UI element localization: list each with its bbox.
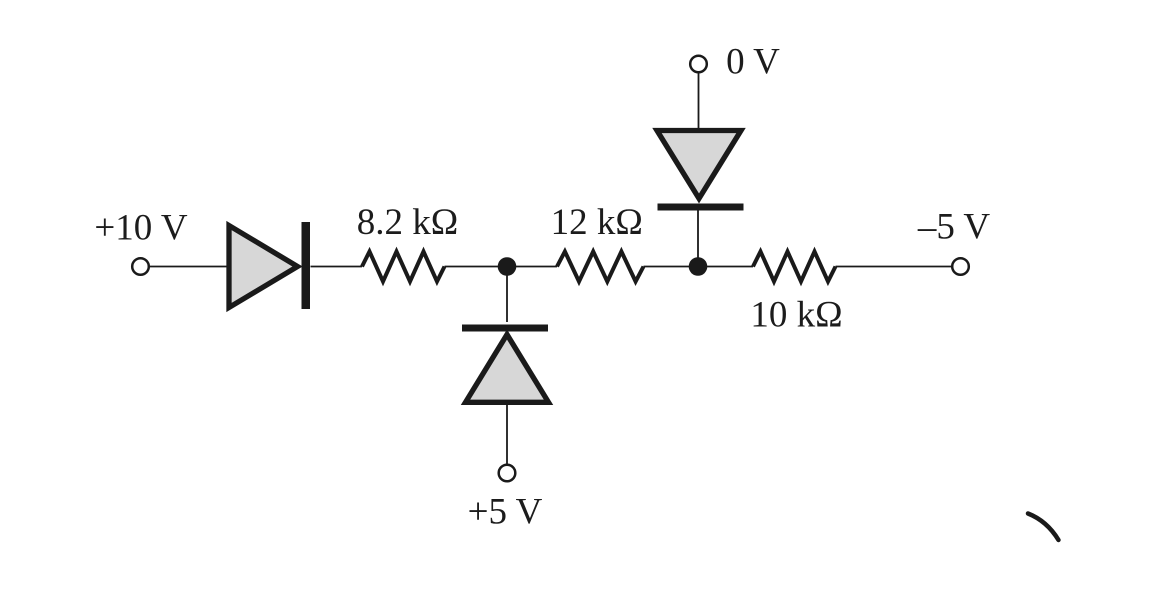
diode D1 cathode bar — [302, 222, 311, 309]
svg-text:+5 V: +5 V — [468, 492, 543, 533]
node A junction dot — [498, 257, 517, 276]
label 10 kOhm — [750, 295, 842, 336]
terminal +10V (open circle) — [132, 258, 149, 275]
wire D2 to terminal +5V — [506, 404, 508, 465]
node B junction dot — [689, 257, 708, 276]
svg-text:10 kΩ: 10 kΩ — [750, 295, 842, 336]
resistor R2 zigzag 12k — [557, 252, 644, 282]
label +5 V — [468, 492, 543, 533]
diode D3 triangle (pointing down) — [657, 131, 741, 199]
terminal -5V (open circle) — [952, 258, 969, 275]
svg-text:8.2 kΩ: 8.2 kΩ — [357, 202, 459, 243]
label 0 V — [726, 42, 780, 83]
diode D1 triangle — [229, 226, 298, 308]
terminal +5V (open circle) — [499, 465, 516, 482]
wire terminal to diode D1 — [149, 266, 230, 268]
svg-text:12 kΩ: 12 kΩ — [551, 202, 643, 243]
terminal 0V (open circle) — [690, 56, 707, 73]
wire D3 to terminal 0V — [698, 72, 700, 129]
wire R1 to node A — [445, 266, 508, 268]
diode D2 cathode bar — [462, 325, 548, 332]
wire R2 to node B — [644, 266, 754, 268]
svg-text:–5 V: –5 V — [917, 207, 991, 248]
diode D3 cathode bar — [658, 204, 744, 211]
label -5 V — [917, 207, 991, 248]
label 8.2 kOhm — [357, 202, 459, 243]
wire D1 to resistor R1 — [311, 266, 363, 268]
svg-text:+10 V: +10 V — [94, 208, 187, 249]
wire node A down to diode D2 — [506, 267, 508, 323]
stray curved mark bottom right — [1028, 514, 1059, 541]
label +10 V — [94, 208, 187, 249]
resistor R1 zigzag 8.2k — [362, 252, 445, 282]
resistor R3 zigzag 10k — [753, 252, 836, 282]
svg-text:0 V: 0 V — [726, 42, 780, 83]
wire node B up to diode D3 — [697, 206, 699, 267]
wire node A to resistor R2 — [507, 266, 557, 268]
label 12 kOhm — [551, 202, 643, 243]
wire R3 to terminal -5V — [836, 266, 952, 268]
diode D2 triangle (pointing up) — [466, 335, 549, 403]
